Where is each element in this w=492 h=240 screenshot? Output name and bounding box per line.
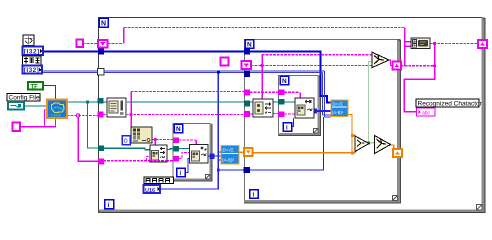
wire cluster drop to E2 top — [154, 140, 156, 146]
tunnel C magenta (y136) — [174, 138, 180, 144]
wire U16 stub to B1 pin3 — [218, 159, 221, 161]
wire string comparator out to tunnel — [389, 60, 393, 66]
svg-text:i: i — [108, 202, 110, 209]
select/comparison triangle top — [372, 52, 389, 67]
wire I32 array 1 (dark blue) — [43, 52, 331, 103]
svg-text:N: N — [101, 21, 106, 28]
junction cluster to E2 top — [154, 138, 157, 141]
wire cluster tunnel B65 to branch — [251, 65, 262, 67]
wire refnum branch down to lower tunnel — [88, 102, 99, 148]
rotate-array icon F0 (inside loop C) — [190, 145, 209, 164]
wire refnum F1 to loop D — [273, 101, 278, 103]
for-loop C frame — [173, 124, 213, 182]
wire string tunnel B to junction — [401, 65, 434, 67]
tunnel B magenta (y114) — [244, 111, 250, 117]
wire cluster to comparator input2 — [262, 65, 372, 67]
loop B i badge — [250, 190, 259, 199]
wire I32 2D-array inside loop A — [104, 71, 244, 73]
loop B N badge — [245, 40, 254, 49]
wire cluster ctrl2 to tunnel A — [83, 43, 98, 45]
wire 2D-array drop to B1 pin1 — [217, 72, 219, 152]
svg-text:N: N — [247, 42, 252, 49]
wire I32 array 2 (pale blue) — [42, 71, 331, 117]
wire string branch to open-config left pin — [45, 110, 48, 127]
wire U16 / B2 feed (blue) — [160, 72, 324, 189]
array-op icon E2 — [150, 145, 167, 162]
wire DBL B1 out to tunnel — [239, 151, 244, 153]
tunnel B blue (y170) — [244, 167, 251, 173]
wire U16 inside loop B to B2 — [250, 117, 324, 170]
junction string to indicator branch — [433, 64, 436, 67]
wire refnum E1 to loop B — [126, 101, 244, 103]
junction string output branch — [433, 42, 436, 45]
control terminal boolean TF — [28, 82, 43, 90]
wire cluster stub to icon pin1 — [405, 41, 412, 43]
label 特征值 — [23, 56, 42, 65]
junction cluster branch loop B — [260, 64, 263, 67]
wire error tunnel to E1 — [103, 114, 107, 116]
wire DBL orange — [239, 115, 394, 153]
loop D N badge — [280, 76, 289, 85]
wire refnum tunnel to F0 — [179, 148, 189, 150]
wire refnum lower tunnel to E2 — [104, 148, 151, 150]
sub-VI distance B2 — [331, 100, 348, 117]
wire cluster vertical segments (solid) — [124, 28, 412, 67]
tunnel B blue (y51.5) — [244, 49, 250, 55]
wire I32 2D-array vertical to B2 — [323, 71, 325, 117]
for-loop B fold corner — [393, 196, 398, 201]
wire loop C output (blue) — [208, 155, 214, 157]
comparison triangle tri1 — [355, 136, 369, 152]
for-loop A (outer) frame — [98, 18, 485, 214]
tunnel B orange output (right y152) — [393, 149, 402, 157]
wire refnum tunnel to G1 — [285, 101, 296, 103]
wire error open-config to loop A — [67, 115, 98, 117]
wire cluster drop to F0 top — [195, 140, 197, 145]
wire config refnum teal main — [67, 102, 295, 150]
wire cluster tunnel D92 to G1 top — [285, 91, 300, 93]
junction teal refnum fanout — [86, 101, 89, 104]
index/search icon top right — [411, 38, 430, 49]
control terminal I32 array 1 — [23, 47, 44, 56]
svg-text:Recognized Chatactor: Recognized Chatactor — [418, 101, 483, 108]
constant terminal U16 — [144, 185, 161, 194]
wire boolean light green — [369, 62, 375, 143]
wire cluster tunnel A to riser — [108, 43, 123, 45]
wire boolean TF (dark green) — [43, 86, 56, 100]
wire DBL tunnel to comparators — [253, 152, 353, 154]
wire loop D output (blue) — [317, 110, 331, 112]
loop A i badge — [105, 200, 114, 210]
svg-text:abc: abc — [422, 110, 431, 116]
wire string to indicator / comparator output (magenta) — [20, 60, 393, 127]
svg-text:CONF: CONF — [51, 114, 62, 118]
wire cluster riser right — [404, 28, 406, 67]
wire I32 array1 inside loop A — [104, 51, 244, 53]
svg-text:Config File: Config File — [9, 95, 40, 102]
tunnel B pink auto-index (y65) — [242, 61, 252, 69]
junction boolean green at tri1 tip — [367, 142, 370, 145]
wire cluster dashed inside loop B — [250, 55, 372, 114]
wire cluster to comparator input1 — [262, 54, 372, 56]
wire error tunnel to F0 — [179, 153, 190, 159]
wire cluster tunnel D114 to G1 — [285, 113, 296, 115]
svg-text:N: N — [176, 126, 181, 133]
tunnel A output pink (right, y44) — [478, 40, 487, 48]
wire error cluster dashed: open-config to loop A tunnels — [67, 92, 244, 161]
svg-text:0: 0 — [124, 138, 128, 145]
wire error stub into E2 — [147, 157, 151, 161]
array-op icon F1 (inside loop B) — [253, 99, 273, 117]
svg-text:[I32]: [I32] — [24, 49, 40, 56]
wire I32 array1 terminal to loop A — [43, 51, 98, 53]
wire cluster tunnel to F0 top — [179, 139, 196, 141]
wire boolean comparator down link — [369, 62, 372, 143]
wire i counter loop D (blue) — [292, 118, 294, 127]
wire string control to open-config — [20, 118, 56, 127]
tunnel C teal (y148) — [174, 146, 180, 152]
wire refnum tunnel to F1 — [250, 101, 253, 103]
wire refnum E2 to loop C tunnel — [167, 148, 174, 151]
tunnel A magenta (y157) — [98, 159, 104, 165]
tunnel C magenta (y158) — [174, 156, 180, 162]
wire refnum tunnel to E1 — [101, 101, 107, 103]
wire DBL B2 out down — [349, 115, 353, 153]
tunnel A hollow (y72) — [98, 69, 105, 76]
tunnel A teal (y148) — [98, 146, 104, 152]
wire cluster stub to icon pin2 — [405, 45, 412, 47]
svg-text:[I32]: [I32] — [24, 67, 39, 74]
index array icon E3 (beige) — [131, 127, 152, 143]
wire I32 2D-array inside loop B — [250, 71, 324, 73]
tunnel B orange auto-index (y152) — [244, 148, 253, 156]
control pink square (x76) — [77, 40, 84, 48]
junction circle error-cluster branch — [76, 114, 80, 118]
wire DBL stub tri1 lower — [352, 151, 356, 153]
wire loop C output to B1 — [214, 155, 221, 157]
label 权 — [23, 35, 34, 46]
loop A N badge — [99, 18, 108, 28]
sub-VI open config icon — [47, 100, 67, 119]
sub-VI read config E1 — [107, 98, 127, 117]
wire cluster dashed: ctrl2 to tunnel A44 — [83, 28, 404, 44]
wire cluster tunnel B114 to F1 — [250, 113, 253, 115]
wire boolean into tri2 — [369, 142, 375, 144]
tunnel B teal (y103) — [244, 101, 250, 107]
wire cluster upper run to loop B — [131, 91, 244, 93]
tunnel C output blue (right y156) — [210, 154, 215, 160]
svg-text:(A-B)²: (A-B)² — [222, 158, 234, 163]
wire error lower run to loop C — [104, 160, 174, 162]
wire cluster top run — [124, 27, 404, 29]
for-loop D fold corner — [314, 129, 319, 134]
for-loop D frame — [278, 76, 321, 137]
tunnel B magenta (y92) — [244, 90, 250, 96]
tunnel D teal (y102) — [278, 99, 285, 105]
junction 2D-array branch to B1 — [217, 70, 220, 73]
svg-text:N: N — [282, 78, 287, 85]
for-loop B frame — [244, 39, 401, 204]
wire string icon output to outer tunnel — [430, 43, 478, 45]
wire string route to indicator (solid) — [404, 44, 435, 112]
tunnel B blue (y74) — [244, 71, 250, 78]
control pink square (lower left) — [13, 123, 21, 132]
tunnel D magenta (y114) — [278, 112, 285, 118]
tunnel A magenta (y114) — [98, 112, 104, 118]
svg-text:TF: TF — [31, 84, 39, 90]
junction DBL to comparator lower — [351, 151, 354, 154]
control pink square (x220) — [221, 58, 229, 66]
indicator string abc — [417, 108, 436, 116]
label Config File — [7, 94, 40, 102]
wire U16 constant to B1 — [160, 152, 221, 189]
junction cluster fanout at E1 output — [130, 113, 133, 116]
for-loop C fold corner — [206, 175, 211, 180]
rotate-array icon G1 (inside loop D) — [295, 98, 314, 118]
wire error cluster vertical segments (solid) — [78, 92, 196, 162]
svg-text:D=√Σ: D=√Σ — [223, 148, 234, 153]
comparison triangle tri2 — [375, 136, 391, 154]
tunnel A teal (y100) — [98, 98, 104, 104]
wire DBL tri2 out to tunnel — [390, 145, 394, 150]
tunnel A pink auto-index (left, y44) — [98, 40, 108, 48]
wire I32 2D-array stub into B2 — [323, 115, 331, 117]
wire cluster vertical segments loop B (solid) — [262, 55, 300, 100]
svg-text:D=√Σ: D=√Σ — [333, 102, 344, 107]
svg-text:(A-B)²: (A-B)² — [332, 110, 344, 115]
wire cluster F1 out to loop D — [273, 113, 278, 115]
svg-text:U16: U16 — [145, 188, 155, 194]
label 功能模式 — [144, 177, 174, 184]
tunnel D output blue (right y111) — [312, 109, 318, 114]
tunnel B pink output (right y65) — [393, 62, 402, 70]
wire I32 2D-array terminal to loop A — [42, 71, 98, 73]
wire path control (teal) — [24, 105, 47, 107]
loop C i badge — [177, 168, 186, 177]
wire cluster drop to F1 top — [261, 55, 263, 100]
wire cluster tunnel B92 to loop D — [250, 91, 278, 93]
numeric constant 0 — [122, 136, 130, 145]
junction DBL to comparator upper — [351, 134, 354, 137]
loop D i badge — [283, 123, 292, 132]
sub-VI distance B1 — [221, 146, 239, 165]
wire I32 array1 inside loop B to B2 — [250, 52, 331, 103]
control terminal I32 array 2 — [23, 66, 43, 75]
wire cluster dashed overlay across E2 — [150, 160, 167, 162]
loop C N badge — [174, 124, 183, 133]
junction U16 branch to tunnel — [217, 169, 220, 172]
wire DBL stub tri1 upper — [352, 135, 356, 137]
wire error riser to lower tunnel — [78, 117, 98, 161]
wire refnum open-config to loop A — [67, 101, 98, 103]
tunnel A blue solid (y51.5) — [98, 49, 104, 55]
tunnel D magenta (y92) — [278, 90, 285, 96]
wire i counter loop C (blue) — [185, 159, 190, 173]
wire cluster E3 out to loop C — [152, 139, 174, 141]
wire cluster riser left — [123, 28, 125, 44]
wire cluster E1 to loop B — [126, 114, 244, 116]
wire 0 constant to E3 (blue) — [130, 139, 133, 141]
label Recognized Chatactor — [416, 99, 483, 108]
wire cluster riser to E3 — [130, 92, 132, 128]
wire cluster drop to G1 top — [299, 92, 301, 98]
control terminal path — [8, 102, 24, 110]
wire cluster dashed: top icon output to right tunnel — [401, 44, 478, 66]
wire U16 branch to loop B tunnel — [218, 169, 244, 171]
for-loop A fold corner — [477, 205, 483, 211]
